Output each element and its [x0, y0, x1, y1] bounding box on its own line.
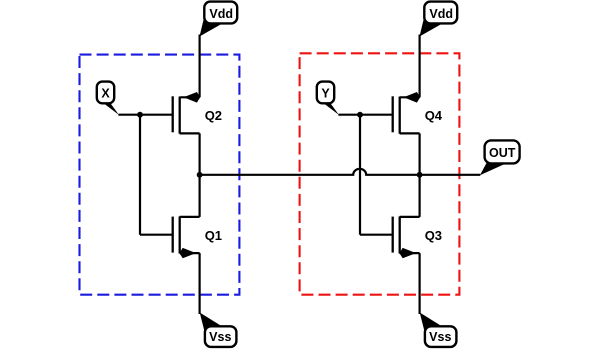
- wire: right output node down to Q3 drain: [419, 175, 421, 217]
- wire: right output node to OUT flag: [420, 174, 481, 176]
- junction: right gate node: [357, 112, 363, 118]
- svg-text:Vss: Vss: [429, 330, 451, 344]
- wire: X flag to left gate junction: [118, 114, 140, 116]
- power flag Vss (left): [200, 313, 237, 347]
- input flag X: [97, 82, 119, 115]
- svg-text:Q3: Q3: [425, 228, 442, 243]
- junction: left gate node: [137, 112, 143, 118]
- wire: left output node down to Q1 drain: [199, 175, 201, 217]
- input flag Y: [317, 82, 339, 115]
- junction: right output node: [417, 172, 423, 178]
- boundary box: blue dashed (left inverter): [80, 55, 240, 295]
- transistor Q1 (NMOS, left): [173, 216, 222, 258]
- boundary box: red dashed (right inverter): [300, 53, 460, 294]
- svg-text:Vdd: Vdd: [429, 7, 453, 21]
- output flag OUT: [480, 140, 520, 175]
- wire: Y flag to right gate junction: [338, 114, 360, 116]
- wire: right gate junction down to Q3 gate row: [359, 115, 361, 235]
- wire: left gate column to Q1 gate: [140, 234, 172, 236]
- power flag Vdd (right): [420, 2, 458, 37]
- wire: Q1 source down to Vss flag: [199, 253, 201, 314]
- wire: Vdd flag down to Q2 source: [199, 35, 201, 98]
- wire: Q2 drain down to left output node: [199, 133, 201, 174]
- transistor Q3 (NMOS, right): [393, 216, 442, 258]
- svg-text:Q2: Q2: [205, 108, 222, 123]
- transistor Q2 (PMOS, left): [173, 92, 222, 134]
- wire: output bus from left output node with hop over Y gate line: [200, 169, 420, 175]
- wire: Vdd flag down to Q4 source: [419, 35, 421, 98]
- wire: right gate column to Q3 gate: [360, 234, 392, 236]
- svg-text:Q4: Q4: [425, 108, 443, 123]
- svg-text:X: X: [101, 87, 110, 101]
- svg-text:Y: Y: [321, 87, 330, 101]
- wire: left gate junction to Q2 gate: [140, 114, 172, 116]
- svg-text:Q1: Q1: [205, 228, 222, 243]
- transistor Q4 (PMOS, right): [393, 92, 443, 134]
- wire: left gate junction down to Q1 gate row: [139, 115, 141, 235]
- wire: right gate junction to Q4 gate: [360, 114, 392, 116]
- svg-text:Vss: Vss: [209, 330, 231, 344]
- wire: Q3 source down to Vss flag: [419, 253, 421, 314]
- svg-text:OUT: OUT: [489, 146, 516, 160]
- power flag Vdd (left): [200, 2, 238, 37]
- power flag Vss (right): [420, 313, 457, 347]
- svg-text:Vdd: Vdd: [209, 7, 233, 21]
- wire: Q4 drain down to right output node: [419, 133, 421, 174]
- junction: left output node: [197, 172, 203, 178]
